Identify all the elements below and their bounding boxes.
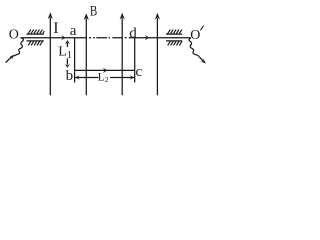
current arrow on left lead xyxy=(6,55,14,63)
right bearing wall xyxy=(166,30,182,46)
wire: coil side b-c xyxy=(75,69,135,71)
svg-text:a: a xyxy=(70,23,77,39)
current arrow on axis right xyxy=(145,35,149,40)
svg-text:I: I xyxy=(53,20,58,37)
field line B1 xyxy=(48,12,53,95)
svg-text:O: O xyxy=(9,27,19,42)
svg-text:B: B xyxy=(90,3,97,19)
field line B4 xyxy=(155,13,160,96)
svg-text:c: c xyxy=(136,64,143,80)
wire: axis OO' solid segment coil to O' xyxy=(132,37,191,39)
L1 dimension line with end arrows xyxy=(65,40,70,68)
current arrow on axis left (I direction) xyxy=(61,35,65,40)
svg-text:O: O xyxy=(190,28,200,43)
node O' (right axis pivot) xyxy=(190,26,203,44)
axis OO' dash-dot centre line xyxy=(89,37,132,39)
left bearing wall xyxy=(27,30,45,46)
svg-text:b: b xyxy=(66,68,74,84)
svg-text:d: d xyxy=(129,25,137,41)
wire: coil side d-c xyxy=(134,38,136,83)
current arrow on b-c xyxy=(103,68,108,73)
wire: right flexible lead from O' xyxy=(189,38,199,56)
current arrow on right lead xyxy=(199,57,206,64)
field line B2 (labelled B) xyxy=(84,13,89,95)
wire: coil side a-b xyxy=(74,38,76,83)
field line B3 xyxy=(120,13,125,96)
wire: left flexible lead from O xyxy=(13,38,23,56)
L2 dimension line with end arrows xyxy=(75,75,135,80)
wire: axis OO' solid segment O to coil xyxy=(20,37,86,39)
